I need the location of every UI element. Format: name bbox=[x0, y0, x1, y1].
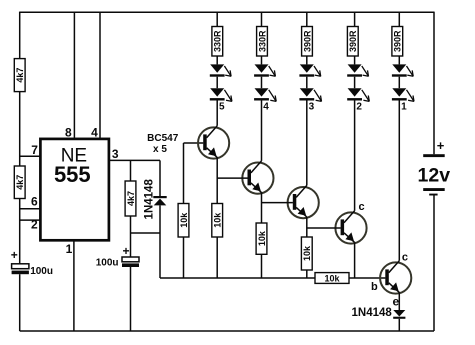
wire pin4 to top rail bbox=[99, 12, 101, 138]
pin 8 label bbox=[65, 125, 72, 139]
svg-text:330R: 330R bbox=[257, 30, 267, 52]
wire ground bottom rail bbox=[20, 330, 434, 332]
svg-text:4: 4 bbox=[263, 101, 269, 112]
pin 1 label bbox=[66, 242, 73, 256]
wire Q4 collector bbox=[354, 100, 356, 211]
capacitor C1 100u bbox=[12, 264, 29, 274]
LED D6 arrow bbox=[269, 90, 277, 102]
transistor Q1 BC547 bbox=[198, 126, 229, 159]
wire column 4 between LEDs bbox=[354, 77, 356, 89]
wire R11 to ramp rail bbox=[261, 254, 263, 278]
wire Q1 emitter to Q2 base bbox=[217, 177, 247, 179]
LED D11 arrow bbox=[407, 66, 414, 76]
LED D7 column 3 upper bbox=[299, 64, 314, 76]
label Q5 collector c bbox=[402, 252, 408, 264]
svg-text:6: 6 bbox=[31, 195, 38, 209]
pin 3 label bbox=[112, 147, 119, 161]
wire pin8 to top rail bbox=[73, 12, 75, 138]
wire column 2 between LEDs bbox=[261, 77, 263, 89]
wire R12 to ramp rail bbox=[306, 270, 308, 278]
wire Q5 collector bbox=[398, 100, 400, 261]
LED D12 column 5 lower bbox=[392, 88, 407, 100]
resistor R5 330R bbox=[257, 27, 268, 57]
resistor R3 4k7 (pin3) bbox=[125, 160, 136, 233]
svg-text:4: 4 bbox=[91, 125, 98, 139]
label C2 value 100u bbox=[96, 258, 119, 269]
LED D4 arrow bbox=[224, 90, 232, 102]
wire R10 to ramp rail bbox=[216, 237, 218, 278]
wire pin1 to ground bbox=[73, 242, 75, 332]
op-amp U1 NE555 body bbox=[40, 139, 109, 240]
pin 4 label bbox=[91, 125, 98, 139]
svg-text:4k7: 4k7 bbox=[15, 68, 25, 83]
LED D7 arrow bbox=[314, 66, 321, 76]
label BC547 bbox=[147, 133, 179, 144]
wire column 4 resistor to LED bbox=[354, 56, 356, 64]
svg-text:1: 1 bbox=[401, 101, 407, 112]
wire ramp rail bbox=[160, 277, 315, 279]
label LED number 3 bbox=[309, 101, 315, 112]
svg-text:7: 7 bbox=[31, 143, 38, 157]
svg-text:10k: 10k bbox=[324, 273, 340, 283]
label LED number 5 bbox=[219, 101, 225, 112]
label Q4 collector c bbox=[359, 201, 365, 213]
wire column 2 resistor to LED bbox=[261, 56, 263, 64]
svg-text:10k: 10k bbox=[302, 245, 312, 261]
wire Q2 emitter to R11 bbox=[261, 192, 263, 223]
wire +12V top rail bbox=[20, 11, 434, 13]
wire Q3 collector bbox=[306, 100, 308, 186]
label U1 NE bbox=[61, 146, 87, 167]
pin 7 label bbox=[31, 143, 38, 157]
diode D1 1N4148 bbox=[153, 160, 166, 278]
wire column 1 resistor to LED bbox=[216, 56, 218, 64]
capacitor C2 100u bbox=[122, 257, 139, 267]
battery B1 negative plate bbox=[423, 188, 445, 191]
wire ramp rail to Q5 base bbox=[349, 277, 385, 279]
resistor R2 4k7 (left rail) bbox=[14, 166, 25, 199]
wire R9 to ramp rail bbox=[183, 237, 185, 278]
wire Q3 emitter to R12 bbox=[306, 217, 308, 237]
LED D9 arrow bbox=[362, 66, 369, 76]
wire Q1 base corner bbox=[184, 143, 204, 204]
wire Q1 emitter to R10 bbox=[216, 157, 218, 203]
svg-text:10k: 10k bbox=[179, 212, 189, 228]
wire Q2 emitter to Q3 base bbox=[262, 202, 293, 204]
wire LED column 5 from top rail bbox=[398, 12, 400, 26]
LED D10 column 4 lower bbox=[347, 88, 362, 100]
wire column 5 between LEDs bbox=[398, 77, 400, 89]
svg-text:390R: 390R bbox=[348, 30, 358, 52]
svg-text:330R: 330R bbox=[213, 30, 223, 52]
svg-text:2: 2 bbox=[31, 218, 38, 232]
label D1 1N4148 vertical bbox=[143, 179, 155, 220]
wire LED column 2 from top rail bbox=[261, 12, 263, 26]
wire pin6 to left rail bbox=[20, 208, 40, 210]
wire battery positive lead bbox=[433, 12, 435, 155]
LED D4 column 1 lower bbox=[210, 88, 225, 100]
svg-text:390R: 390R bbox=[302, 30, 312, 52]
wire column 1 between LEDs bbox=[216, 77, 218, 89]
resistor R1 4k7 (top left) bbox=[14, 59, 25, 92]
LED D5 arrow bbox=[269, 66, 276, 76]
wire Q2 collector bbox=[261, 100, 263, 161]
transistor Q4 BC547 bbox=[335, 211, 366, 244]
svg-text:100u: 100u bbox=[30, 266, 53, 277]
svg-text:100u: 100u bbox=[96, 258, 119, 269]
battery B1 positive plate bbox=[423, 154, 445, 157]
svg-text:BC547: BC547 bbox=[147, 133, 179, 144]
svg-text:390R: 390R bbox=[393, 30, 403, 52]
wire LED column 3 from top rail bbox=[306, 12, 308, 26]
label LED number 2 bbox=[356, 101, 362, 112]
resistor R9 10k bbox=[178, 204, 189, 238]
svg-text:1: 1 bbox=[66, 242, 73, 256]
svg-text:c: c bbox=[402, 252, 408, 264]
LED D8 arrow bbox=[314, 90, 322, 102]
svg-text:8: 8 bbox=[65, 125, 72, 139]
LED D3 arrow bbox=[224, 66, 231, 76]
wire Q3 emitter to Q4 base bbox=[307, 227, 341, 229]
resistor R12 10k bbox=[301, 237, 312, 270]
wire pin3 output bbox=[110, 159, 160, 161]
wire left rail mid segment bbox=[19, 92, 21, 166]
LED D8 column 3 lower bbox=[299, 88, 314, 100]
svg-text:+: + bbox=[122, 244, 129, 258]
pin 2 label bbox=[31, 218, 38, 232]
svg-text:4k7: 4k7 bbox=[15, 175, 25, 190]
wire left rail lower segment bbox=[19, 199, 21, 264]
wire Q1 collector bbox=[216, 100, 218, 126]
svg-text:4k7: 4k7 bbox=[126, 191, 136, 206]
svg-text:+: + bbox=[11, 248, 18, 262]
svg-text:x 5: x 5 bbox=[153, 144, 167, 155]
svg-text:b: b bbox=[371, 281, 378, 293]
svg-text:3: 3 bbox=[309, 101, 315, 112]
svg-text:12v: 12v bbox=[418, 165, 451, 187]
resistor R11 10k bbox=[256, 223, 267, 254]
label Q5 base b bbox=[371, 281, 378, 293]
svg-text:555: 555 bbox=[54, 162, 91, 187]
diode D2 1N4148 bbox=[393, 292, 405, 331]
label U1 555 bbox=[54, 162, 91, 187]
resistor R7 390R bbox=[347, 27, 358, 57]
label battery 12v bbox=[418, 165, 451, 187]
LED D11 column 5 upper bbox=[392, 64, 407, 76]
transistor Q2 BC547 bbox=[242, 161, 273, 194]
svg-text:+: + bbox=[437, 138, 445, 153]
transistor Q5 BC547 bbox=[380, 261, 411, 294]
svg-text:3: 3 bbox=[112, 147, 119, 161]
wire pin7 to left rail bbox=[20, 155, 40, 157]
svg-text:c: c bbox=[359, 201, 365, 213]
svg-text:10k: 10k bbox=[257, 230, 267, 246]
wire column 3 resistor to LED bbox=[306, 56, 308, 64]
capacitor C2 100u plus sign bbox=[122, 244, 129, 258]
label x 5 bbox=[153, 144, 167, 155]
resistor R6 390R bbox=[302, 27, 313, 57]
svg-text:e: e bbox=[392, 294, 399, 308]
svg-text:5: 5 bbox=[219, 101, 225, 112]
wire LED column 4 from top rail bbox=[354, 12, 356, 26]
wire C1 to ground bbox=[19, 274, 21, 331]
label LED number 4 bbox=[263, 101, 269, 112]
LED D12 arrow bbox=[407, 90, 415, 102]
label LED number 1 bbox=[401, 101, 407, 112]
svg-text:1N4148: 1N4148 bbox=[352, 307, 393, 319]
pin 6 label bbox=[31, 195, 38, 209]
wire LED column 1 from top rail bbox=[216, 12, 218, 26]
wire column 5 resistor to LED bbox=[398, 56, 400, 64]
capacitor C1 100u plus sign bbox=[11, 248, 18, 262]
LED D10 arrow bbox=[362, 90, 370, 102]
svg-text:1N4148: 1N4148 bbox=[143, 179, 155, 220]
LED D3 column 1 upper bbox=[210, 64, 225, 76]
resistor R4 330R bbox=[212, 27, 223, 57]
LED D5 column 2 upper bbox=[254, 64, 269, 76]
wire node A horizontal bbox=[131, 232, 161, 234]
wire battery negative lead bbox=[433, 196, 435, 332]
resistor R10 10k bbox=[212, 204, 223, 238]
battery B1 negative short bar bbox=[429, 194, 437, 196]
resistor R8 390R bbox=[392, 27, 403, 57]
transistor Q3 BC547 bbox=[288, 185, 319, 218]
LED D9 column 4 upper bbox=[347, 64, 362, 76]
LED D6 column 2 lower bbox=[254, 88, 269, 100]
wire Q4 emitter to ramp rail bbox=[354, 242, 356, 278]
wire left rail upper segment bbox=[19, 12, 21, 59]
wire column 3 between LEDs bbox=[306, 77, 308, 89]
wire pin2 to left rail bbox=[20, 219, 40, 221]
svg-text:2: 2 bbox=[356, 101, 362, 112]
resistor R13 10k (horizontal) bbox=[315, 273, 349, 284]
label D2 1N4148 bbox=[352, 307, 393, 319]
label Q5 emitter e bbox=[392, 294, 399, 308]
battery B1 plus sign bbox=[437, 138, 445, 153]
wire node A to C2 bbox=[130, 233, 132, 257]
wire C2 to ground bbox=[130, 267, 132, 331]
label C1 value 100u bbox=[30, 266, 53, 277]
svg-text:10k: 10k bbox=[213, 212, 223, 228]
